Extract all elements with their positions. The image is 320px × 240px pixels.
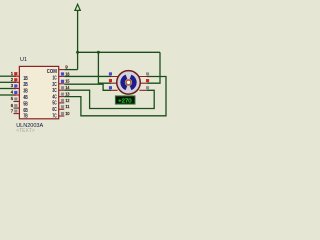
svg-text:4B: 4B xyxy=(23,95,27,101)
motor M1 right coil arc xyxy=(131,77,135,88)
svg-text:15: 15 xyxy=(65,79,70,84)
pin name 1B xyxy=(23,76,27,82)
pin name 7C xyxy=(52,113,56,119)
pin 11 state square xyxy=(61,105,64,108)
motor left pin state square 1 xyxy=(109,72,112,75)
pin number 5 xyxy=(11,96,14,101)
pin number 10 xyxy=(65,111,70,116)
pin 6 state square xyxy=(14,104,17,107)
pin 7 state square xyxy=(14,110,17,113)
svg-text:+270: +270 xyxy=(118,98,131,104)
pin 12 state square xyxy=(61,99,64,102)
U1 value label ULN2003A xyxy=(16,123,43,129)
pin number 6 xyxy=(11,103,14,108)
svg-text:4C: 4C xyxy=(52,94,56,100)
svg-text:12: 12 xyxy=(65,98,70,103)
junction at rail middle xyxy=(97,51,100,54)
svg-text:10: 10 xyxy=(65,111,70,116)
pin 2 state square xyxy=(14,78,17,81)
wire VCC horizontal rail xyxy=(78,51,160,53)
svg-text:U1: U1 xyxy=(20,57,27,63)
pin 16 state square xyxy=(61,72,64,75)
pin name 5C xyxy=(52,101,56,107)
motor right pin state square 2 xyxy=(146,79,149,82)
pin 10 state square xyxy=(61,112,64,115)
wire 3C pin14 to motor right coil end A xyxy=(64,90,154,108)
pin 5 stub xyxy=(14,101,20,103)
svg-text:3C: 3C xyxy=(52,88,56,94)
motor right pin state square 1 xyxy=(146,72,149,75)
pin number 9 xyxy=(65,65,68,70)
pin name 3C xyxy=(52,88,56,94)
pin number 13 xyxy=(65,92,70,97)
U1 reference label xyxy=(20,57,27,63)
svg-text:6C: 6C xyxy=(52,107,56,113)
svg-text:7C: 7C xyxy=(52,113,56,119)
pin name 2C xyxy=(52,82,56,88)
U1 text placeholder label xyxy=(16,128,35,134)
motor angle display xyxy=(115,96,135,104)
wire input 4 xyxy=(0,94,16,96)
pin 12 stub xyxy=(59,102,65,104)
pin 13 stub xyxy=(59,96,65,98)
svg-text:2C: 2C xyxy=(52,82,56,88)
motor M1 body xyxy=(117,71,141,95)
pin 16 stub xyxy=(59,75,65,77)
motor right pin state square 3 xyxy=(146,86,149,89)
pin 13 state square xyxy=(61,93,64,96)
pin name 7B xyxy=(23,114,27,120)
pin 4 stub xyxy=(14,94,20,96)
pin 3 state square xyxy=(14,84,17,87)
svg-text:1C: 1C xyxy=(52,76,56,82)
wire input 2 xyxy=(0,81,16,83)
pin 7 stub xyxy=(14,113,20,115)
svg-text:5C: 5C xyxy=(52,101,56,107)
pin 14 state square xyxy=(61,86,64,89)
pin 15 stub xyxy=(59,83,65,85)
pin 10 stub xyxy=(59,115,65,117)
pin name 4C xyxy=(52,94,56,100)
power symbol VCC arrow xyxy=(75,4,80,10)
motor M1 shaft xyxy=(126,80,131,85)
wire VCC vertical from arrow down to COM pin level xyxy=(77,10,79,69)
svg-text:COM: COM xyxy=(47,69,57,75)
pin name 6C xyxy=(52,107,56,113)
svg-text:16: 16 xyxy=(65,71,70,76)
pin number 12 xyxy=(65,98,70,103)
pin number 1 xyxy=(11,71,14,76)
pin number 7 xyxy=(11,108,14,113)
pin 1 state square xyxy=(14,72,17,75)
pin name 3B xyxy=(23,88,27,94)
pin 3 stub xyxy=(14,88,20,90)
wire VCC branch to motor left center tap xyxy=(98,52,111,83)
pin number 11 xyxy=(65,104,70,109)
svg-text:13: 13 xyxy=(65,92,70,97)
wire input 1 xyxy=(0,75,16,77)
motor M1 left pin stubs xyxy=(111,77,118,91)
pin name COM xyxy=(47,69,57,75)
motor M1 left coil arc xyxy=(123,77,127,88)
wire VCC branch to motor right center tap xyxy=(147,52,160,83)
pin number 3 xyxy=(11,83,14,88)
pin name 2B xyxy=(23,82,27,88)
motor left pin state square 2 xyxy=(109,79,112,82)
wire input 3 xyxy=(0,88,16,90)
svg-text:5B: 5B xyxy=(23,101,27,107)
pin 4 state square xyxy=(14,91,17,94)
pin 15 state square xyxy=(61,80,64,83)
motor left pin state square 3 xyxy=(109,86,112,89)
svg-text:2B: 2B xyxy=(23,82,27,88)
svg-text:14: 14 xyxy=(65,85,70,90)
svg-text:1B: 1B xyxy=(23,76,27,82)
svg-text:3B: 3B xyxy=(23,88,27,94)
svg-text:7B: 7B xyxy=(23,114,27,120)
motor M1 right pin stubs xyxy=(139,77,147,91)
wire 4C pin13 to motor right coil end B xyxy=(64,77,166,116)
IC U1 ULN2003A body xyxy=(19,66,58,118)
pin name 5B xyxy=(23,101,27,107)
pin 9 stub xyxy=(59,69,65,71)
pin 5 state square xyxy=(14,97,17,100)
pin number 2 xyxy=(11,77,14,82)
pin number 16 xyxy=(65,71,70,76)
wire 1C pin16 to motor left coil end A xyxy=(64,75,111,77)
pin name 4B xyxy=(23,95,27,101)
wire VCC into COM pin 9 xyxy=(64,69,77,71)
wire 2C pin15 to motor left coil end B xyxy=(64,84,111,90)
junction at rail left xyxy=(76,51,79,54)
svg-text:<TEXT>: <TEXT> xyxy=(16,128,35,134)
pin 2 stub xyxy=(14,81,20,83)
pin number 4 xyxy=(11,90,14,95)
pin 1 stub xyxy=(14,75,20,77)
svg-text:11: 11 xyxy=(65,104,70,109)
pin 11 stub xyxy=(59,108,65,110)
pin 6 stub xyxy=(14,107,20,109)
pin number 14 xyxy=(65,85,70,90)
pin name 1C xyxy=(52,76,56,82)
pin number 15 xyxy=(65,79,70,84)
pin 14 stub xyxy=(59,89,65,91)
pin name 6B xyxy=(23,108,27,114)
